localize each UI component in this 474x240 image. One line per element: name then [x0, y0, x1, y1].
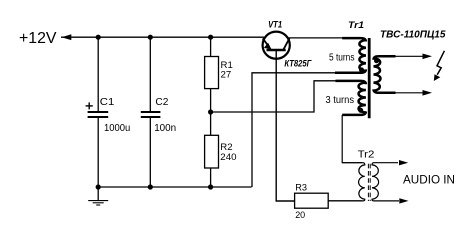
capacitor C2: [141, 112, 161, 117]
svg-text:ТВС-110ПЦ15: ТВС-110ПЦ15: [380, 29, 446, 41]
resistor R2: [205, 135, 219, 168]
W3 phase dot: [374, 58, 379, 63]
wire W2 bottom down to Tr2: [342, 115, 362, 163]
wire R1 top lead: [210, 37, 212, 56]
wire R2 bottom lead: [210, 168, 212, 187]
wire HV bottom output: [395, 92, 425, 94]
capacitor C1: [86, 102, 109, 117]
svg-text:C2: C2: [155, 96, 168, 108]
transformer Tr2 primary winding: [328, 163, 365, 201]
svg-text:Tr2: Tr2: [358, 150, 375, 161]
wire C1 top lead: [97, 37, 99, 112]
transformer Tr1 winding W3 HV secondary: [374, 56, 396, 93]
W1 phase dot: [359, 67, 364, 72]
Tr1 core: [368, 38, 371, 118]
audio bottom arrowhead: [399, 198, 408, 203]
transformer Tr1 winding W1 5 turns: [335, 38, 366, 73]
node C2 top: [148, 35, 153, 40]
svg-text:+12V: +12V: [19, 30, 57, 47]
svg-text:Tr1: Tr1: [348, 20, 364, 31]
wire C1 bottom lead: [97, 117, 99, 187]
node R1 top: [208, 35, 213, 40]
svg-text:КТ825Г: КТ825Г: [284, 59, 311, 69]
transistor VT1: [263, 32, 290, 59]
svg-text:100n: 100n: [154, 123, 176, 134]
HV bottom arrowhead: [423, 90, 433, 96]
resistor R1: [205, 57, 219, 89]
wire W1 bottom to ground: [252, 73, 336, 187]
svg-text:R3: R3: [295, 183, 307, 194]
wire collector to Tr1: [288, 37, 345, 39]
wire ground rail: [98, 186, 251, 188]
wire R3 to Tr2: [328, 200, 362, 202]
wire HV top output: [395, 55, 425, 57]
svg-text:20: 20: [295, 210, 305, 221]
spark lightning symbol: [434, 51, 445, 81]
wire divider node to W2 top: [211, 81, 336, 112]
wire VT1 base line: [276, 50, 294, 201]
transformer Tr2 secondary winding: [372, 163, 399, 201]
ground: [88, 187, 108, 205]
wire R1-R2 link: [210, 89, 212, 136]
wire C2 bottom lead: [149, 117, 151, 187]
resistor R3: [295, 193, 329, 208]
svg-text:1000u: 1000u: [104, 123, 130, 134]
svg-text:5 turns: 5 turns: [329, 53, 355, 64]
svg-text:27: 27: [221, 70, 232, 81]
W2 phase dot: [358, 108, 363, 113]
node R1/R2 junction: [208, 109, 213, 114]
svg-text:3 turns: 3 turns: [326, 95, 355, 106]
node C2 bottom: [148, 184, 153, 189]
node C1 top: [96, 35, 101, 40]
svg-text:AUDIO IN: AUDIO IN: [403, 172, 455, 186]
wire C2 top lead: [149, 37, 151, 112]
transformer Tr1 winding W2 3 turns: [336, 81, 366, 115]
HV top arrowhead: [423, 54, 433, 60]
svg-text:240: 240: [220, 152, 236, 163]
audio top arrowhead: [399, 160, 408, 165]
Tr2 core: [368, 164, 370, 201]
wire +12V rail: [61, 36, 264, 38]
svg-text:C1: C1: [100, 96, 115, 108]
node R2 bottom: [208, 184, 213, 189]
node C1 bottom: [96, 184, 101, 189]
svg-text:VT1: VT1: [268, 19, 282, 29]
+12V arrow: [62, 34, 72, 40]
